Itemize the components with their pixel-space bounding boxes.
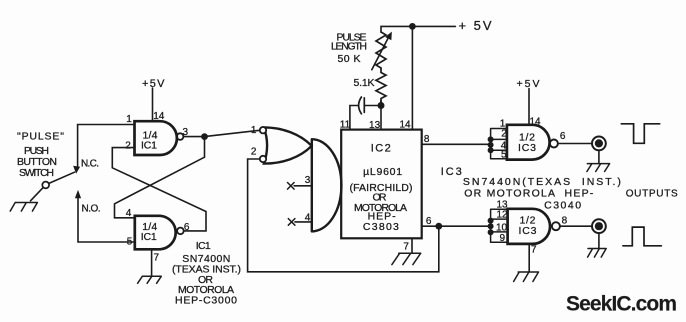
wire rail to IC2 pin 14 bbox=[411, 26, 413, 129]
svg-text:5: 5 bbox=[127, 237, 133, 248]
junction dot IC3a pin4 bbox=[488, 147, 494, 153]
svg-text:7: 7 bbox=[403, 242, 409, 253]
svg-text:IC2: IC2 bbox=[371, 143, 391, 155]
wire dot to capacitor bbox=[364, 105, 377, 107]
wire IC2 pin 8 to IC3a inputs bbox=[422, 143, 491, 145]
wire jack J1 to ground bbox=[598, 150, 600, 163]
svg-text:SeekIC.com: SeekIC.com bbox=[566, 293, 677, 316]
expander half-disc of IC2 bbox=[312, 139, 342, 231]
waveform positive pulse bbox=[623, 227, 662, 246]
svg-text:3: 3 bbox=[305, 175, 311, 186]
svg-text:4: 4 bbox=[126, 208, 132, 219]
svg-text:8: 8 bbox=[424, 134, 430, 145]
node D junction dot (timing) bbox=[378, 102, 385, 109]
wire top +5V rail bbox=[381, 26, 455, 32]
svg-text:1: 1 bbox=[251, 125, 257, 136]
svg-text:5: 5 bbox=[501, 150, 507, 161]
wire IC3a output to jack J1 bbox=[558, 143, 592, 145]
node B junction dot at IC2 pin6 bbox=[435, 223, 442, 230]
svg-text:6: 6 bbox=[426, 216, 432, 227]
wire IC3a input bus bbox=[491, 129, 507, 159]
label IC1 device info bbox=[172, 240, 241, 307]
node N.C. contact arrow + wire to IC1 pin 1 bbox=[78, 125, 135, 167]
svg-text:IC3: IC3 bbox=[518, 142, 536, 154]
jack J1 output connector bbox=[592, 137, 606, 151]
wire +5V to IC1 pin 14 bbox=[152, 88, 154, 121]
resistor R2 5.1K bbox=[376, 68, 386, 106]
potentiometer R1 50K pulse length bbox=[376, 32, 386, 68]
label PULSE LENGTH 50 K bbox=[331, 32, 367, 66]
svg-text:4: 4 bbox=[305, 213, 311, 224]
svg-text:7: 7 bbox=[531, 245, 537, 256]
wire switch pole to ground bbox=[31, 188, 44, 201]
node C junction dot on +5V rail bbox=[409, 23, 416, 30]
capacitor C1 bbox=[359, 97, 365, 114]
nand gate U1a 1/4 IC1 bbox=[135, 121, 177, 155]
wire jack J2 to ground bbox=[598, 233, 600, 248]
svg-text:SWITCH: SWITCH bbox=[19, 167, 54, 179]
wire IC1b pin 7 to ground bbox=[151, 249, 153, 276]
junction dot IC3a wire-in bbox=[488, 142, 494, 148]
svg-text:+ 5V: + 5V bbox=[459, 18, 492, 33]
wire node B to IC3b inputs bbox=[422, 225, 491, 227]
wire IC1a output to node A bbox=[183, 136, 204, 138]
svg-text:2: 2 bbox=[251, 147, 257, 158]
svg-text:"PULSE": "PULSE" bbox=[17, 131, 64, 143]
or gate input bubble pin 2 bbox=[260, 156, 266, 162]
svg-text:IC3: IC3 bbox=[441, 166, 462, 178]
svg-text:HEP-C3000: HEP-C3000 bbox=[175, 295, 237, 307]
label "PULSE" PUSH BUTTON SWITCH bbox=[17, 131, 64, 180]
svg-text:14: 14 bbox=[153, 111, 165, 122]
input X mark pin 4 bbox=[288, 219, 295, 226]
svg-text:SN7440N(TEXAS INST.): SN7440N(TEXAS INST.) bbox=[463, 176, 621, 188]
svg-text:OUTPUTS: OUTPUTS bbox=[626, 188, 678, 199]
svg-text:2: 2 bbox=[501, 129, 507, 140]
wire dot to IC2 pin 13 bbox=[380, 101, 382, 130]
svg-text:5.1K: 5.1K bbox=[354, 77, 375, 89]
potentiometer R1 wiper arrow bbox=[372, 37, 389, 70]
svg-text:1: 1 bbox=[126, 114, 132, 125]
node A junction dot bbox=[201, 133, 208, 140]
nand gate U3a 1/2 IC3 bbox=[507, 125, 550, 160]
svg-text:+5V: +5V bbox=[142, 78, 165, 90]
wire pin 4 bbox=[295, 221, 312, 223]
svg-text:8: 8 bbox=[562, 215, 568, 226]
svg-text:LENGTH: LENGTH bbox=[331, 41, 367, 53]
wire feedback IC2 pin 6 to OR pin 2 bbox=[248, 159, 439, 272]
svg-text:OR MOTOROLA HEP-: OR MOTOROLA HEP- bbox=[464, 187, 594, 199]
wire cross-couple IC1a out to IC1b pin 4 bbox=[115, 137, 205, 218]
wire IC2 pin 7 to ground bbox=[411, 238, 413, 253]
svg-text:IC3: IC3 bbox=[519, 225, 537, 237]
ground (IC3b pin 7) bbox=[514, 272, 539, 282]
svg-text:7: 7 bbox=[154, 253, 160, 264]
jack J2 output connector bbox=[592, 219, 606, 233]
svg-text:14: 14 bbox=[529, 116, 541, 127]
svg-text:9: 9 bbox=[500, 233, 506, 244]
wire cross-couple IC1b out to IC1a pin 2 bbox=[112, 148, 206, 231]
wire capacitor to IC2 pin 11 bbox=[350, 106, 359, 130]
junction dot IC3b pin10 bbox=[488, 229, 494, 235]
svg-text:N.C.: N.C. bbox=[81, 159, 99, 170]
ground (switch) bbox=[10, 203, 37, 212]
ground (IC1b pin 7) bbox=[138, 276, 162, 283]
wire +5V to IC3a pin 14 bbox=[528, 89, 530, 125]
wire node A to OR gate pin 1 bbox=[205, 130, 260, 136]
svg-text:11: 11 bbox=[340, 120, 351, 131]
svg-text:12: 12 bbox=[496, 210, 508, 221]
label IC2 device info bbox=[340, 120, 432, 253]
svg-text:IC1: IC1 bbox=[196, 240, 211, 252]
switch S1 "PULSE" push button: pole contact bbox=[42, 182, 49, 189]
svg-text:C3040: C3040 bbox=[544, 200, 581, 212]
IC2 box bbox=[341, 130, 422, 239]
junction dot IC3b wire-in bbox=[488, 223, 494, 229]
ground (IC2 pin 7) bbox=[392, 253, 421, 264]
nand gate U3b 1/2 IC3 bbox=[508, 209, 550, 244]
or gate input bubble pin 1 bbox=[260, 127, 266, 133]
svg-text:50 K: 50 K bbox=[338, 53, 361, 65]
junction dot IC3b pin12 bbox=[488, 218, 494, 224]
input X mark pin 3 bbox=[288, 183, 295, 190]
svg-text:µL9601: µL9601 bbox=[363, 166, 402, 178]
waveform negative pulse bbox=[621, 124, 659, 144]
wire pin 3 bbox=[294, 185, 312, 187]
svg-text:6: 6 bbox=[184, 222, 190, 233]
wire IC3b pin 7 to ground bbox=[528, 244, 530, 272]
svg-text:IC1: IC1 bbox=[141, 140, 157, 152]
svg-text:14: 14 bbox=[399, 120, 411, 131]
junction dot IC3a pin2 bbox=[488, 136, 494, 142]
wire IC3b output to jack J2 bbox=[560, 225, 592, 227]
switch S1 lever arm bbox=[49, 172, 75, 183]
svg-text:13: 13 bbox=[369, 120, 381, 131]
label IC3 device info SN7440N bbox=[463, 176, 621, 212]
svg-text:6: 6 bbox=[560, 131, 566, 142]
wire IC3b input bus bbox=[491, 209, 508, 242]
svg-text:+5V: +5V bbox=[517, 78, 540, 90]
nand gate U1b 1/4 IC1 bbox=[135, 216, 176, 250]
node N.O. contact arrow + wire to IC1 pin 5 bbox=[78, 197, 135, 242]
svg-text:C3803: C3803 bbox=[363, 221, 399, 233]
svg-text:IC1: IC1 bbox=[141, 231, 157, 243]
ground (jack J1) bbox=[587, 164, 610, 172]
svg-text:N.O.: N.O. bbox=[82, 204, 101, 215]
svg-text:2: 2 bbox=[125, 141, 131, 152]
ground (jack J2) bbox=[588, 249, 607, 258]
or gate U2 input stage bbox=[264, 127, 312, 163]
